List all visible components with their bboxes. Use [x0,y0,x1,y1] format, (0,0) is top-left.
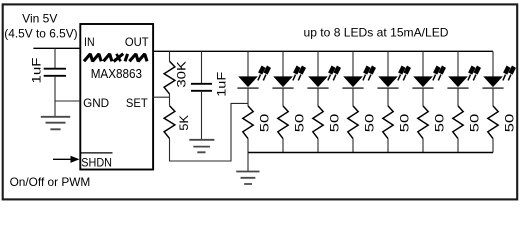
wire Vin to IN pin [33,47,80,49]
svg-text:50: 50 [467,113,481,132]
wire rail to C2 [201,51,203,83]
wire bottom return rail [248,152,493,154]
LED D4 [342,76,363,88]
svg-text:50: 50 [257,113,271,132]
wire resistor to bottom rail [492,139,494,153]
svg-text:5K: 5K [177,115,191,131]
LED D7 [447,76,468,88]
wire LED D1 to resistor [247,88,249,106]
svg-text:50: 50 [327,113,341,132]
LED D1 [237,76,258,88]
svg-text:1uF: 1uF [214,72,228,97]
wire rail to LED D6 [422,51,424,76]
wire rail to ground [247,153,249,172]
svg-text:50: 50 [362,113,376,132]
wire C1 to ground / GND pin node [54,76,56,117]
resistor R6 50 [348,106,358,139]
wire R1 to SET node [169,94,171,106]
resistor R7 50 [383,106,393,139]
wire rail to R1 [169,51,171,61]
ground symbol at LED return [236,172,259,185]
svg-text:SHDN: SHDN [81,156,112,170]
op-amp U1 MAX8863 regulator body [80,24,153,170]
LED D5 light arrows [398,67,410,81]
wire rail to LED D2 [282,51,284,76]
resistor R8 50 [418,106,428,139]
wire LED D4 to resistor [352,88,354,106]
resistor R1 30K [164,61,175,94]
svg-text:up to 8 LEDs at 15mA/LED: up to 8 LEDs at 15mA/LED [304,26,449,40]
wire SET pin [153,96,169,98]
svg-text:50: 50 [502,113,516,132]
ground symbol at C1 [41,117,70,130]
svg-text:1uF: 1uF [30,58,44,84]
svg-text:On/Off or PWM: On/Off or PWM [10,175,91,189]
svg-text:GND: GND [83,96,109,110]
LED D4 light arrows [363,67,375,81]
resistor R10 50 [488,106,498,139]
svg-text:Vin 5V: Vin 5V [22,12,57,26]
wire LED D8 to resistor [492,88,494,106]
MAXIM logo [84,54,147,62]
LED D1 light arrows [258,67,270,81]
border frame (decorative) [3,4,518,199]
svg-text:50: 50 [432,113,446,132]
LED D3 light arrows [328,67,340,81]
svg-text:50: 50 [292,113,306,132]
resistor R2 5K [164,106,175,139]
LED D2 [272,76,293,88]
wire LED D3 to resistor [317,88,319,106]
resistor R3 50 [243,106,253,139]
LED D2 light arrows [293,67,305,81]
LED D6 [412,76,433,88]
svg-text:(4.5V to 6.5V): (4.5V to 6.5V) [4,26,77,40]
ground symbol at C2 [189,140,214,153]
wire rail to LED D5 [387,51,389,76]
LED D8 [482,76,503,88]
LED D5 [377,76,398,88]
wire LED D6 to resistor [422,88,424,106]
wire resistor to bottom rail [422,139,424,153]
LED D7 light arrows [468,67,480,81]
svg-text:MAX8863: MAX8863 [91,66,142,81]
capacitor C1 1uF [44,69,66,76]
wire LED D7 to resistor [457,88,459,106]
svg-text:OUT: OUT [125,35,149,49]
resistor R9 50 [453,106,463,139]
wire resistor to bottom rail [457,139,459,153]
wire OUT rail [153,50,493,52]
svg-text:30K: 30K [175,61,189,88]
wire R2 bottom to LED1 cathode node [170,103,249,161]
wire rail to LED D8 [492,51,494,76]
wire C2 to ground [201,91,203,140]
wire resistor to bottom rail [282,139,284,153]
resistor R4 50 [278,106,288,139]
svg-text:IN: IN [84,35,95,49]
resistor R5 50 [313,106,323,139]
capacitor C2 1uF [191,84,212,91]
wire rail to LED D4 [352,51,354,76]
wire rail to LED D1 [247,51,249,76]
wire resistor to bottom rail [317,139,319,153]
wire rail to LED D3 [317,51,319,76]
SHDN input arrow [53,158,71,160]
wire Vin node down to C1 [54,48,56,68]
wire rail to LED D7 [457,51,459,76]
svg-text:50: 50 [397,113,411,132]
wire resistor to bottom rail [352,139,354,153]
wire resistor to bottom rail [387,139,389,153]
svg-text:SET: SET [126,96,148,110]
LED D3 [307,76,328,88]
LED D8 light arrows [503,67,515,81]
wire GND pin [55,100,80,102]
wire LED D5 to resistor [387,88,389,106]
wire resistor to bottom rail [247,139,249,153]
wire LED D2 to resistor [282,88,284,106]
LED D6 light arrows [433,67,445,81]
